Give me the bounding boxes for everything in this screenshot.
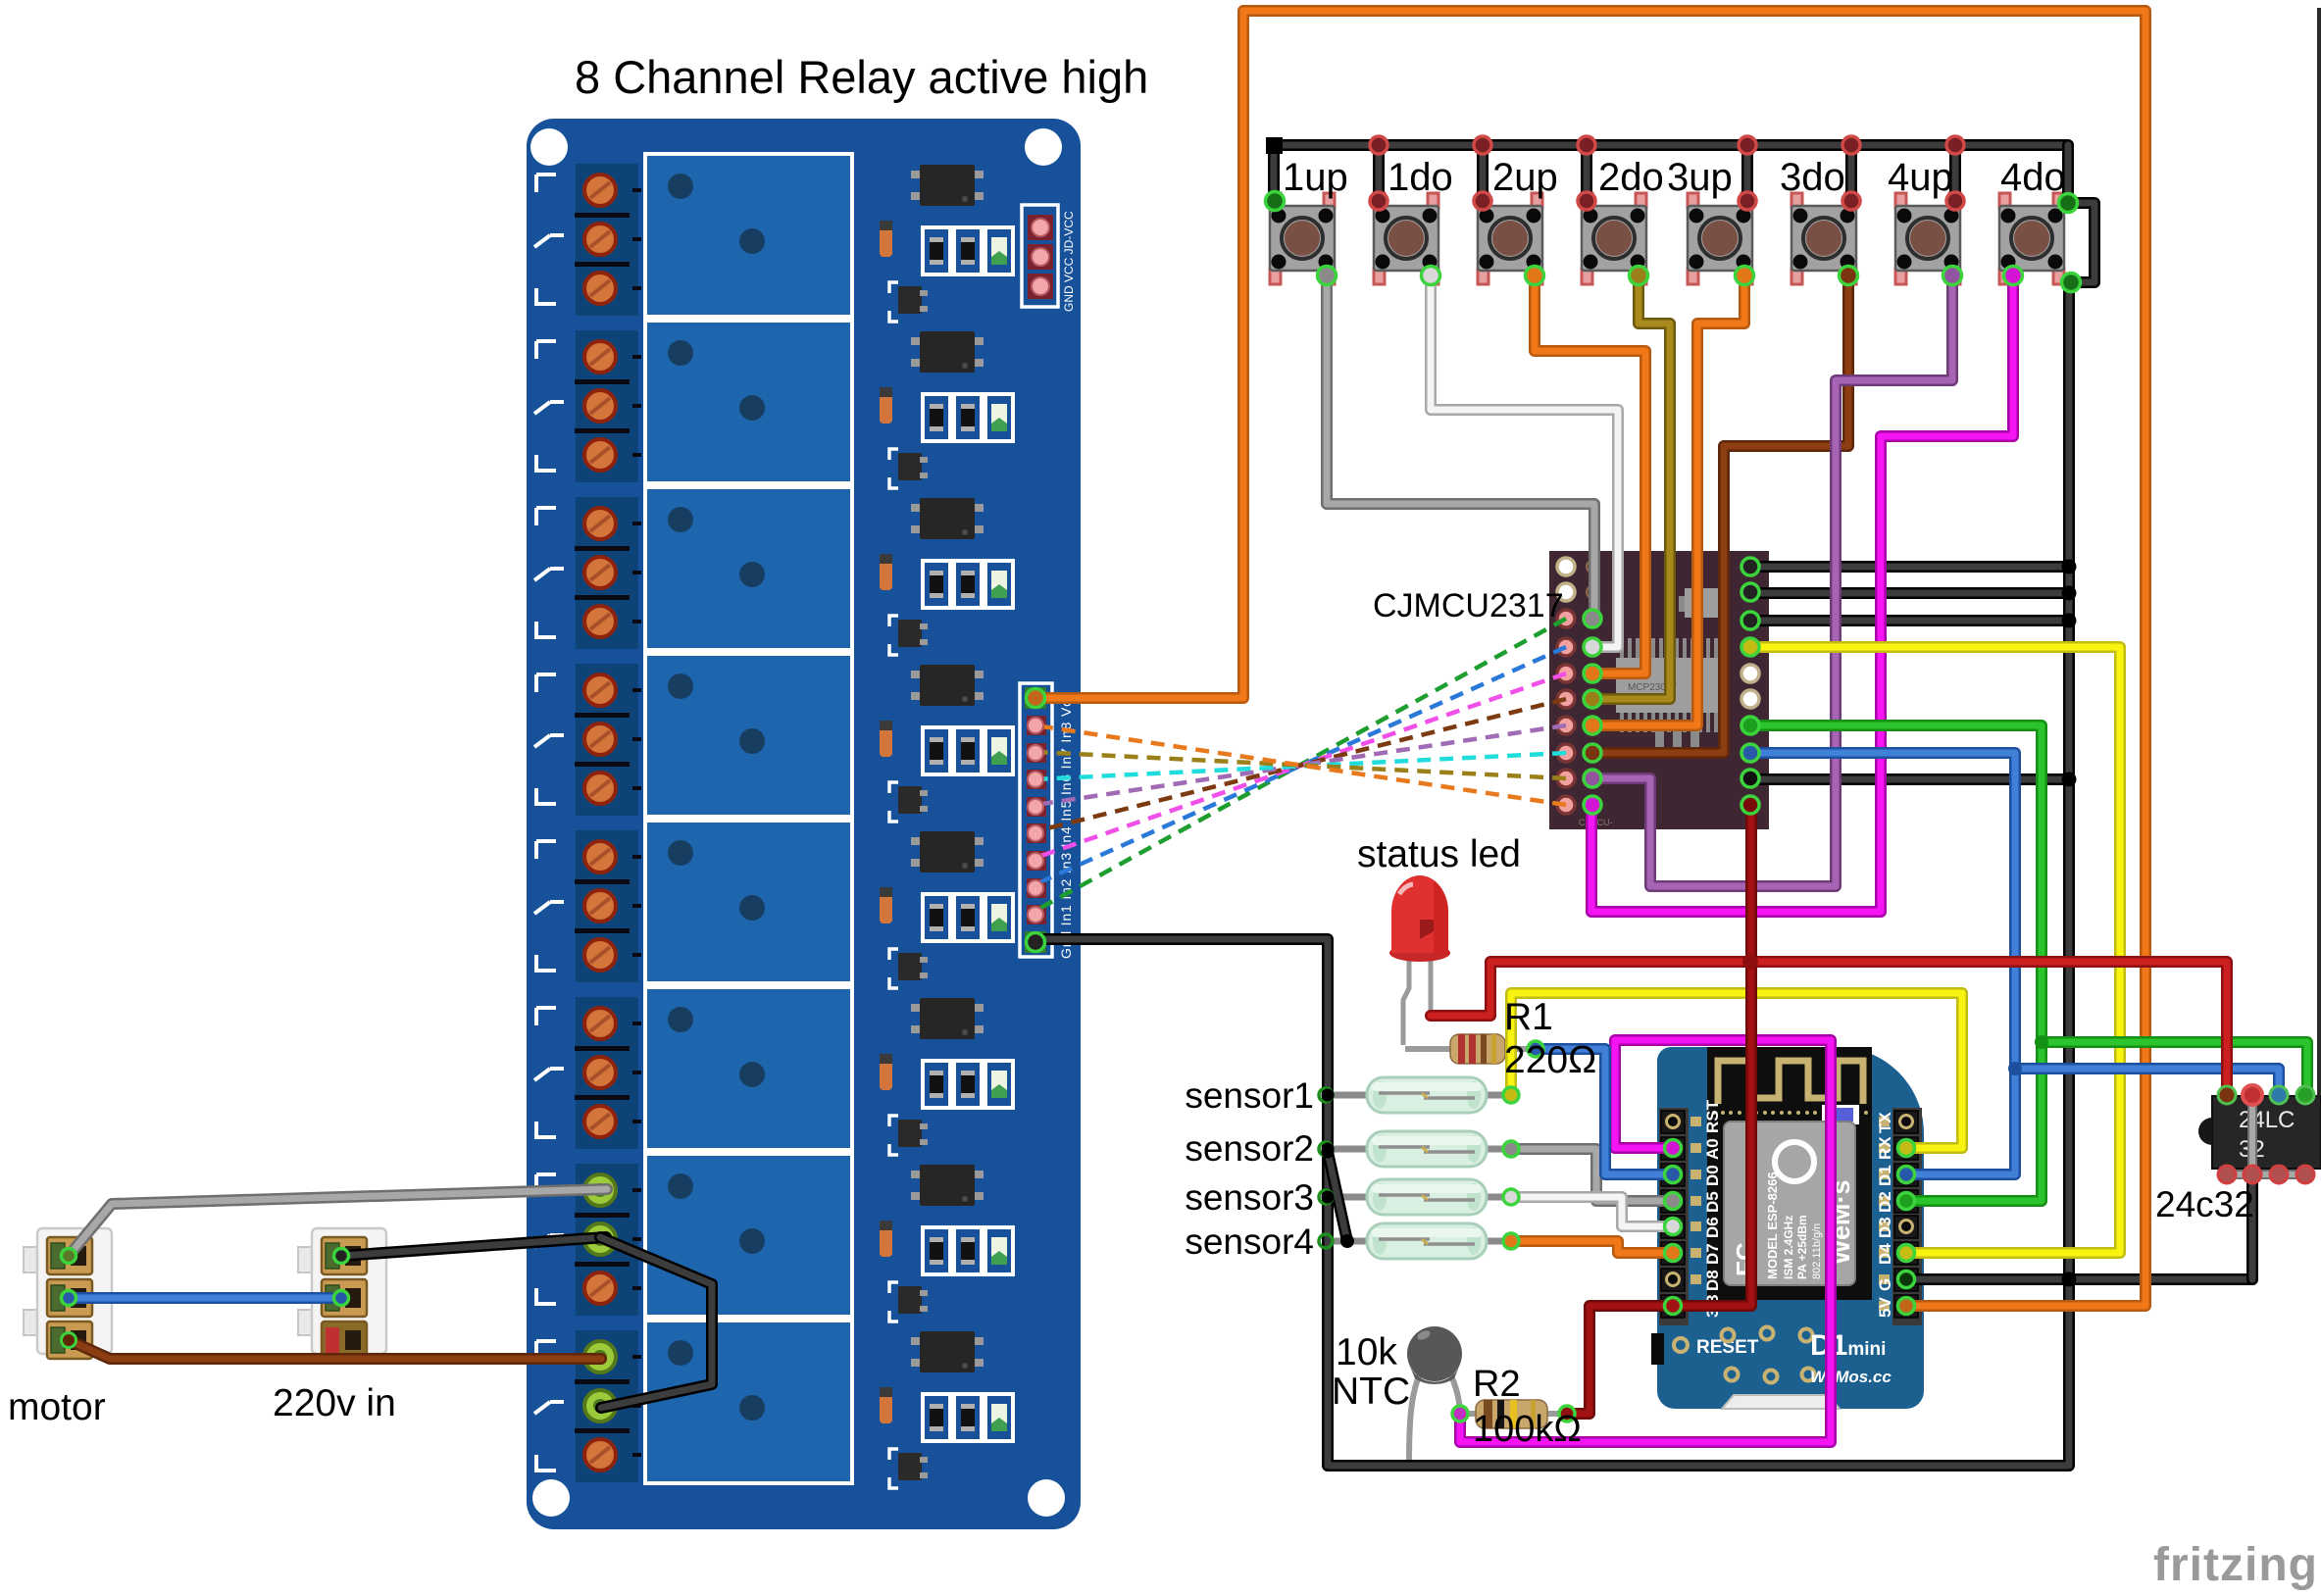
wire dark-red CJMCU to 3V3 and R2 xyxy=(1567,810,1751,1414)
svg-text:5V: 5V xyxy=(1876,1297,1894,1318)
wire brown 3do to CJMCU xyxy=(1598,275,1848,753)
wire orange 2up to CJMCU xyxy=(1535,275,1645,673)
junction red 3V3 net xyxy=(1742,954,1758,970)
svg-text:10k: 10k xyxy=(1336,1331,1397,1373)
svg-text:1up: 1up xyxy=(1283,156,1348,199)
wire gray 24c32 jumper vertical xyxy=(2247,1095,2257,1174)
wire blue R1 to D1 D0 xyxy=(1536,1049,1671,1174)
svg-text:802.11b/g/n: 802.11b/g/n xyxy=(1811,1223,1823,1279)
pushbutton 4up xyxy=(1895,193,1960,284)
svg-text:D4: D4 xyxy=(1876,1243,1894,1265)
svg-text:D5: D5 xyxy=(1703,1191,1722,1213)
svg-text:RST: RST xyxy=(1703,1099,1722,1133)
4do bottom-right pin xyxy=(2062,274,2081,292)
svg-text:WeMos.cc: WeMos.cc xyxy=(1810,1368,1892,1386)
ratsnest dashed wire CJMCU to relay In xyxy=(1035,725,1566,805)
ratsnest dashed wire CJMCU to relay In xyxy=(1035,619,1566,911)
mounting holes xyxy=(530,128,568,166)
wire black stub to sensor4 xyxy=(1328,1152,1347,1241)
wire blue branch to 24c32 xyxy=(2015,1069,2279,1095)
In header pins redrawn over ratsnest xyxy=(1028,718,1043,733)
pushbutton 1up xyxy=(1270,193,1335,284)
svg-text:100kΩ: 100kΩ xyxy=(1473,1409,1582,1450)
wire white 1do to CJMCU xyxy=(1431,275,1618,647)
wire black bus drop xyxy=(1581,145,1592,201)
wire black bus drop xyxy=(1477,145,1488,201)
motor connector xyxy=(24,1228,112,1359)
pushbutton 3do xyxy=(1791,193,1856,284)
24c32 pin overlays xyxy=(2218,1086,2236,1104)
wire blue motor to 220v xyxy=(69,1292,341,1304)
wire black bus drop xyxy=(1373,145,1385,201)
wire magenta NTC to D1 A0 xyxy=(1460,1040,1831,1442)
wire gray sensor2 to D5 xyxy=(1511,1149,1671,1201)
svg-text:1do: 1do xyxy=(1388,156,1453,199)
svg-text:R1: R1 xyxy=(1504,996,1553,1038)
1up top pin xyxy=(1266,192,1285,211)
wire magenta 4do to CJMCU xyxy=(1591,275,2013,912)
CJMCU inner/outer pin overlays xyxy=(1584,610,1601,627)
junction sensor2 tap xyxy=(1322,1143,1335,1156)
wire white sensor3 to D6 xyxy=(1511,1197,1671,1226)
relay channel 6 xyxy=(534,987,1013,1155)
svg-text:G: G xyxy=(1876,1278,1894,1291)
wire orange sensor4 to D7 xyxy=(1511,1241,1671,1253)
relay channel 5 xyxy=(534,821,1013,988)
wire black ground frame to relay Gnd xyxy=(1035,282,2069,1466)
svg-text:D0: D0 xyxy=(1703,1165,1722,1186)
button bottom wire pins xyxy=(1318,267,1337,285)
pushbutton 1do xyxy=(1374,193,1438,284)
svg-text:PA +25dBm: PA +25dBm xyxy=(1795,1215,1809,1279)
junction sensor1 tap xyxy=(1322,1089,1335,1102)
ratsnest dashed wire CJMCU to relay In xyxy=(1035,699,1566,831)
svg-text:4up: 4up xyxy=(1888,156,1953,199)
relay channel 8 xyxy=(534,1321,1013,1488)
svg-text:sensor3: sensor3 xyxy=(1185,1177,1314,1218)
reed sensor3 xyxy=(1326,1179,1511,1215)
wire olive 2do to CJMCU xyxy=(1598,275,1670,699)
canvas edge line xyxy=(2317,8,2321,1096)
CJMCU2317 MCP23017 breakout board xyxy=(1549,551,1769,829)
wire brown motor to relay ch8 xyxy=(69,1340,601,1359)
svg-text:220v in: 220v in xyxy=(273,1382,396,1424)
wire black bus drop xyxy=(1949,145,1961,201)
pushbutton 4do xyxy=(1999,193,2064,284)
JD-VCC 3-pin header xyxy=(1022,205,1076,312)
svg-text:2up: 2up xyxy=(1492,156,1558,199)
220v in connector xyxy=(298,1228,386,1359)
wire gray motor to relay xyxy=(69,1189,607,1256)
svg-text:D8: D8 xyxy=(1703,1270,1722,1291)
wire black 4do link xyxy=(2068,203,2094,282)
wire red LED anode to 24c32 xyxy=(1431,962,2227,1095)
wire black button bus xyxy=(1274,139,2068,151)
svg-text:RX: RX xyxy=(1876,1136,1894,1160)
junction black bus y795 xyxy=(2062,773,2077,787)
R pins xyxy=(1528,1041,1543,1057)
junction black bus y633 xyxy=(2062,614,2077,628)
sensor pin overlays xyxy=(1319,1088,1333,1102)
pushbutton 2do xyxy=(1582,193,1646,284)
wire black 220v to relay xyxy=(341,1237,606,1256)
relay channel 4 xyxy=(534,654,1013,822)
svg-text:ISM 2.4GHz: ISM 2.4GHz xyxy=(1782,1216,1795,1279)
ratsnest dashed wire CJMCU to relay In xyxy=(1035,673,1566,858)
svg-text:24LC: 24LC xyxy=(2239,1107,2295,1133)
wire orange relay Vcc to D1 5V xyxy=(1035,11,2145,1306)
junction green SCL branch xyxy=(2035,1035,2048,1049)
svg-text:D1: D1 xyxy=(1876,1165,1894,1186)
svg-text:8 Channel Relay active high: 8 Channel Relay active high xyxy=(575,51,1148,103)
ratsnest dashed wire CJMCU to relay In xyxy=(1035,647,1566,884)
wire yellow sensor1 to D1 RX xyxy=(1511,993,1962,1148)
wire green branch to 24c32 xyxy=(2042,1042,2307,1095)
svg-text:A0: A0 xyxy=(1703,1138,1722,1160)
wire black bus drop xyxy=(1741,145,1753,201)
bus end cap xyxy=(1266,137,1283,154)
4do top-right pin xyxy=(2059,194,2078,213)
junction sensor4 tap xyxy=(1322,1146,1335,1159)
reed sensor2 xyxy=(1326,1131,1511,1167)
wire gray 24c32 jumper bottom xyxy=(2227,1170,2305,1179)
svg-text:fritzing: fritzing xyxy=(2153,1539,2318,1591)
svg-text:24c32: 24c32 xyxy=(2155,1184,2254,1224)
svg-text:2do: 2do xyxy=(1598,156,1664,199)
wire black CJMCU to frame xyxy=(1755,615,2069,626)
WeMos D1 mini board xyxy=(1651,1047,1924,1409)
svg-text:3up: 3up xyxy=(1667,156,1733,199)
ratsnest dashed wire CJMCU to relay In xyxy=(1035,753,1566,779)
reed sensor4 xyxy=(1326,1223,1511,1259)
relay channel 7 xyxy=(534,1154,1013,1322)
relay channel 3 xyxy=(534,487,1013,655)
svg-text:TX: TX xyxy=(1876,1112,1894,1133)
svg-text:220Ω: 220Ω xyxy=(1504,1039,1596,1081)
ratsnest dashed wire CJMCU to relay In xyxy=(1035,725,1566,805)
wire black CJMCU to frame xyxy=(1755,773,2069,785)
junction sensor3 tap xyxy=(1322,1191,1335,1204)
junction black bus y605 xyxy=(2062,586,2077,601)
8-channel relay module board xyxy=(527,119,1081,1529)
svg-text:sensor1: sensor1 xyxy=(1185,1075,1314,1116)
svg-text:D7: D7 xyxy=(1703,1243,1722,1265)
svg-text:CJMCU2317: CJMCU2317 xyxy=(1373,587,1564,624)
svg-text:3do: 3do xyxy=(1780,156,1845,199)
24c32 EEPROM chip xyxy=(2198,1086,2321,1174)
svg-text:NTC: NTC xyxy=(1332,1371,1410,1413)
svg-text:D6: D6 xyxy=(1703,1217,1722,1238)
relay channel 2 xyxy=(534,321,1013,488)
wire black bus drop xyxy=(1845,145,1857,201)
svg-text:D3: D3 xyxy=(1876,1217,1894,1238)
status LED (red) xyxy=(1389,875,1450,1045)
resistor R2 100kohm xyxy=(1460,1400,1567,1428)
svg-text:status led: status led xyxy=(1357,833,1521,875)
svg-text:4do: 4do xyxy=(2000,156,2066,199)
svg-text:GND VCC JD-VCC: GND VCC JD-VCC xyxy=(1062,211,1076,312)
pushbutton 3up xyxy=(1688,193,1752,284)
wire gray 1up to CJMCU xyxy=(1327,275,1594,619)
ratsnest dashed wire CJMCU to relay In xyxy=(1035,752,1566,778)
svg-text:R2: R2 xyxy=(1473,1364,1521,1405)
wire blue CJMCU to D1 D1 xyxy=(1755,753,2015,1174)
svg-text:motor: motor xyxy=(8,1386,106,1428)
relay input header Gnd In1..In8 Vcc xyxy=(1020,683,1074,959)
svg-text:MODEL ESP-8266: MODEL ESP-8266 xyxy=(1765,1172,1780,1279)
wire green CJMCU to D1 D2 xyxy=(1755,725,2042,1201)
wire black D1 G to 24c32 xyxy=(1909,1273,2252,1285)
bus connection dots xyxy=(1370,136,1388,154)
D1 mini pin overlays xyxy=(1665,1140,1682,1157)
junction black bus y578 xyxy=(2062,560,2077,574)
wire yellow CJMCU to D1 D4 xyxy=(1755,647,2120,1253)
svg-text:sensor4: sensor4 xyxy=(1185,1222,1314,1262)
junction black bus y1305 xyxy=(2062,1272,2077,1287)
svg-text:sensor2: sensor2 xyxy=(1185,1128,1314,1169)
wire black bus drop xyxy=(1268,145,1280,201)
relay header Vcc/Gnd pins xyxy=(1027,689,1045,708)
reed sensor1 xyxy=(1326,1077,1511,1113)
pushbutton 2up xyxy=(1478,193,1542,284)
resistor R1 220ohm xyxy=(1405,1034,1536,1064)
thermistor 10k NTC xyxy=(1407,1326,1462,1463)
relay channel 1 xyxy=(534,154,1013,322)
motor/220v pin overlays xyxy=(62,1249,76,1264)
antenna xyxy=(1718,1061,1863,1104)
MCP23017 chip xyxy=(1620,638,1624,660)
svg-text:D2: D2 xyxy=(1876,1191,1894,1213)
wire black CJMCU to frame xyxy=(1755,587,2069,599)
wire black bus right drop xyxy=(2062,145,2074,203)
wire purple 4up to CJMCU xyxy=(1598,275,1952,886)
junction blue SDA branch xyxy=(2008,1062,2022,1075)
wire black 24c32 gnd down xyxy=(2246,1174,2258,1279)
wire orange 3up to CJMCU xyxy=(1598,275,1744,725)
wire black CJMCU to frame xyxy=(1755,561,2069,573)
wire black relay jumper xyxy=(600,1237,712,1408)
